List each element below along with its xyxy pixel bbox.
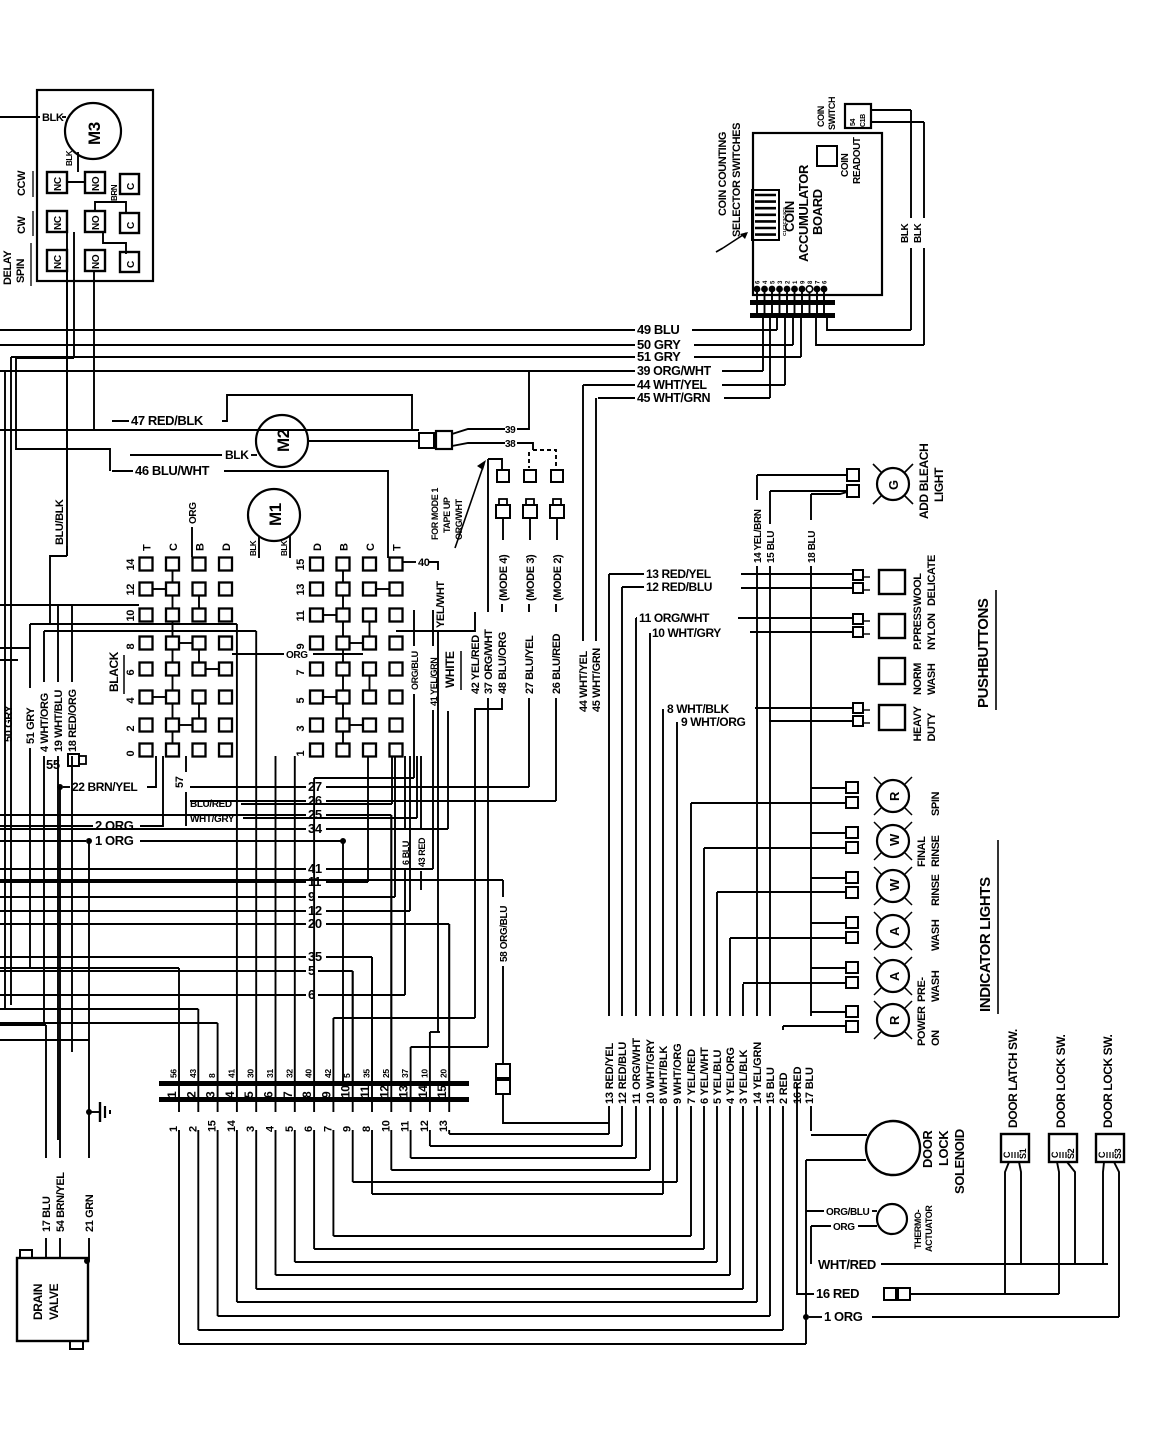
black contact c1r3 [140,609,153,622]
svg-text:18 RED/ORG: 18 RED/ORG [67,689,79,752]
svg-text:6: 6 [262,1091,276,1098]
wire 1 ORG left [0,840,86,842]
svg-text:T: T [142,544,154,551]
lamp G terminals [847,469,859,481]
wire 47 RED/BLK [112,420,129,422]
black contact c2r1 [166,558,179,571]
black contact c3r7 [193,719,206,732]
svg-text:9 WHT/ORG: 9 WHT/ORG [672,1043,684,1104]
svg-text:10: 10 [339,1085,353,1098]
contact NC row3 [47,250,67,271]
svg-text:44 WHT/YEL: 44 WHT/YEL [578,651,590,712]
white contact c2r4 [337,637,350,650]
svg-text:S1: S1 [1018,1148,1028,1159]
wire 18/17 vertical [810,494,812,520]
white contact c2r2 [337,583,350,596]
svg-text:B: B [195,543,207,551]
black contact c4r1 [219,558,232,571]
black contact c3r2 [193,583,206,596]
white contact c2r8 [337,744,350,757]
svg-text:0: 0 [125,751,137,757]
left vertical b [4,371,6,1010]
svg-text:SWITCH: SWITCH [827,97,837,130]
white contact c3r5 [363,663,376,676]
svg-text:26 BLU/RED: 26 BLU/RED [551,633,563,694]
svg-text:D: D [221,543,233,551]
svg-text:NO: NO [91,254,102,269]
white contact c4r2 [390,583,403,596]
white contact c2r3 [337,609,350,622]
wire 8 vertical [662,709,664,1016]
wire 15 vertical [769,491,771,524]
svg-text:SPIN: SPIN [930,791,942,816]
black contact c1r7 [140,719,153,732]
svg-text:46 BLU/WHT: 46 BLU/WHT [135,463,209,478]
arrow mode1 [455,464,484,548]
svg-text:NO: NO [91,215,102,230]
thermo actuator [877,1204,907,1234]
wire 1 ORG drop [342,841,344,1081]
svg-text:G: G [886,480,901,490]
svg-text:8 WHT/BLK: 8 WHT/BLK [667,702,729,716]
wire 2 to lamp R power on [783,1025,846,1027]
black contact c2r6 [166,691,179,704]
contact C row2 [120,213,139,233]
svg-text:ACTUATOR: ACTUATOR [924,1205,934,1252]
wire timer drop 3 [93,271,95,430]
contact NC row1 [47,172,67,193]
svg-text:55: 55 [46,757,60,772]
svg-text:27 BLU/YEL: 27 BLU/YEL [524,635,536,694]
svg-text:(MODE 2): (MODE 2) [552,554,564,601]
wire 6 vertical [703,848,705,1016]
wire 10 vertical [649,633,651,1016]
svg-text:DELAY: DELAY [2,250,14,285]
svg-text:2: 2 [125,726,137,732]
white contact c4r7 [390,719,403,732]
wire 5 vertical [716,892,718,1016]
wire 18 BLU to G [811,492,847,494]
svg-text:S2: S2 [1066,1148,1076,1159]
svg-text:15: 15 [435,1085,449,1098]
svg-text:3: 3 [204,1091,218,1098]
svg-text:SOLENOID: SOLENOID [952,1129,967,1194]
white contact c1r5 [310,663,323,676]
svg-text:READOUT: READOUT [852,137,863,184]
wire label 41 [0,868,306,870]
svg-text:NC: NC [53,177,64,191]
svg-text:10 WHT/GRY: 10 WHT/GRY [652,626,721,640]
strip top drops [178,968,180,1081]
coin bar right wire 2 [816,318,924,345]
svg-text:54: 54 [850,119,857,126]
wire BLK M2 left [130,454,222,456]
motor M3 [65,103,121,159]
fan wire 3 [255,1102,257,1112]
wire 58 ORG/BLU [0,879,503,881]
wire solenoid bottom [806,1159,866,1161]
motor M1 [248,489,300,541]
svg-text:BLU/BLK: BLU/BLK [54,499,66,545]
svg-text:YEL/WHT: YEL/WHT [435,581,447,628]
wire BLK to M3 [0,116,40,118]
wire 2 ORG [0,825,93,827]
svg-text:WASH: WASH [930,919,942,951]
white contact c4r1 [390,558,403,571]
svg-text:DRAIN: DRAIN [31,1284,45,1320]
white contact c4r4 [390,637,403,650]
svg-text:VALVE: VALVE [47,1283,61,1320]
svg-text:FOR MODE 1: FOR MODE 1 [430,488,440,540]
black contact c2r4 [166,637,179,650]
svg-text:32: 32 [284,1069,294,1078]
svg-text:NYLON: NYLON [926,613,938,650]
svg-text:2: 2 [184,1091,198,1098]
svg-text:30: 30 [246,1069,256,1078]
white contact c2r1 [337,558,350,571]
fan wire 13 [448,1102,450,1112]
white contact c2r7 [337,719,350,732]
wire 22 BRN/YEL [57,784,63,790]
pushbutton NORM WASH [879,658,905,684]
svg-text:DOOR LATCH SW.: DOOR LATCH SW. [1006,1029,1020,1128]
wire 6 to lamp W [704,847,846,849]
black contact c2r7 [166,719,179,732]
svg-text:12: 12 [377,1085,391,1098]
svg-text:22 BRN/YEL: 22 BRN/YEL [72,780,137,794]
wire M1 right stub BLK [289,536,291,558]
white contact c3r4 [363,637,376,650]
terminal strip bar 2 [159,1097,469,1102]
svg-text:DOOR: DOOR [920,1130,935,1168]
wire 2 top corner [782,1026,784,1030]
svg-text:DUTY: DUTY [926,712,938,741]
svg-text:16 RED: 16 RED [816,1286,859,1301]
svg-text:3: 3 [295,726,307,732]
svg-text:5: 5 [342,1073,352,1078]
contact C row3 [120,252,139,272]
black contact c1r8 [140,744,153,757]
white contact c4r8 [390,744,403,757]
svg-text:41: 41 [226,1069,236,1078]
indicator lamp A PRE- WASH [877,960,909,992]
svg-text:ORG: ORG [833,1222,855,1233]
svg-text:4: 4 [223,1091,237,1098]
svg-text:M2: M2 [274,429,293,452]
wire label 9 [0,896,306,898]
svg-text:C: C [1002,1151,1012,1158]
svg-text:2 ORG: 2 ORG [95,818,134,833]
pushbutton terminals 1 [853,570,863,580]
svg-text:16 RED: 16 RED [792,1066,804,1104]
wire 13 to pushbutton [609,573,644,575]
drain valve [17,1258,88,1341]
svg-text:10: 10 [125,610,137,622]
svg-text:54 BRN/YEL: 54 BRN/YEL [55,1172,67,1232]
svg-text:11: 11 [358,1085,372,1098]
wire 11 vertical [635,618,637,1016]
svg-text:11 ORG/WHT: 11 ORG/WHT [631,1038,643,1104]
svg-text:21 GRN: 21 GRN [84,1194,96,1232]
svg-text:37 ORG/WHT: 37 ORG/WHT [483,629,495,694]
mode 3 plug [526,499,534,505]
svg-text:4 YEL/ORG: 4 YEL/ORG [725,1047,737,1104]
svg-text:19 WHT/BLU: 19 WHT/BLU [53,690,65,752]
wire NO-C link spin [103,232,126,254]
wire 6 BLU [404,756,406,830]
svg-text:M1: M1 [266,503,285,526]
svg-text:ORG/BLU: ORG/BLU [826,1207,869,1218]
coin counting selector switches block [752,190,779,240]
svg-text:57: 57 [174,776,186,788]
svg-text:BLK: BLK [65,150,74,166]
wire 39 left [0,370,635,372]
wire 46 BLU/WHT [112,470,133,472]
svg-text:34: 34 [308,821,323,836]
black contact c4r7 [219,719,232,732]
wire 49 left [0,329,635,331]
mode plug tops [497,470,509,482]
black contact c4r2 [219,583,232,596]
svg-text:BLK: BLK [42,112,64,124]
black contact c3r4 [193,637,206,650]
wire timer chain [16,358,110,471]
svg-text:SPIN: SPIN [15,258,27,283]
door switch S3 [1096,1134,1124,1162]
svg-text:W: W [887,878,902,891]
door switch S1 [1001,1134,1029,1162]
black contact c3r3 [193,609,206,622]
svg-text:11: 11 [295,610,307,621]
black contact c1r5 [140,663,153,676]
svg-text:C: C [1097,1151,1107,1158]
svg-text:SELECTOR SWITCHES: SELECTOR SWITCHES [731,123,743,237]
white contact c3r2 [363,583,376,596]
svg-text:PUSHBUTTONS: PUSHBUTTONS [975,598,992,708]
black contact c4r8 [219,744,232,757]
svg-text:6 BLU: 6 BLU [401,841,411,865]
svg-text:D: D [312,543,324,551]
svg-text:5 YEL/BLU: 5 YEL/BLU [712,1050,724,1104]
inline connector M2 [419,433,434,448]
switch S2 legs [1057,1162,1059,1294]
wire 4 vertical [729,938,731,1016]
svg-text:W: W [887,833,902,846]
black contact c1r1 [140,558,153,571]
wire 7 to lamp R [691,802,846,804]
wire label 25 [0,814,306,816]
svg-text:42: 42 [323,1069,333,1078]
fan wire 4 [275,1102,277,1112]
svg-text:C: C [126,183,137,190]
left bottom horizontals [0,967,179,969]
black contact c1r4 [140,637,153,650]
svg-text:ORG/BLU: ORG/BLU [410,651,420,690]
svg-text:40: 40 [418,557,430,569]
svg-text:WASH: WASH [926,663,938,695]
white contact c4r5 [390,663,403,676]
svg-text:ORG/WHT: ORG/WHT [454,498,464,540]
svg-text:BLK: BLK [225,448,249,462]
svg-text:ORG: ORG [188,502,199,524]
wire NO-C link with BRN [95,202,126,213]
svg-text:15 BLU: 15 BLU [765,1067,777,1104]
wire 17 BLU [0,1024,46,1026]
svg-text:38: 38 [505,439,516,450]
fan wire 11 [410,1102,412,1112]
svg-text:COIN: COIN [782,201,797,232]
white contact c3r3 [363,609,376,622]
svg-text:13 RED/YEL: 13 RED/YEL [646,567,711,581]
svg-text:BLACK: BLACK [107,651,121,692]
svg-text:8: 8 [207,1073,217,1078]
wire ORG [811,1225,831,1227]
svg-text:25: 25 [381,1069,391,1078]
svg-text:RINSE: RINSE [930,835,942,867]
fan wire 7 [332,1102,334,1112]
wire label 5 [0,970,306,972]
svg-text:35: 35 [362,1069,372,1078]
svg-text:TAPE UP: TAPE UP [442,497,452,533]
wire 5 to lamp W [717,891,846,893]
reversing timer motor box [37,90,153,281]
black contact c4r3 [219,609,232,622]
fan wire 5 [294,1102,296,1112]
svg-text:6: 6 [125,670,137,676]
coin switch box [845,104,871,128]
door lock solenoid [866,1121,920,1175]
wire BLK coin switch 2 [871,121,924,123]
white contact c4r3 [390,609,403,622]
white contact c3r1 [363,558,376,571]
coin bus bar 1 [750,300,835,305]
white grid links [342,571,344,583]
fan wire 15 [217,1102,219,1112]
svg-text:2 RED: 2 RED [778,1072,790,1104]
svg-text:WOOL: WOOL [912,573,924,606]
svg-text:5: 5 [295,698,307,704]
svg-text:WASH: WASH [930,970,942,1002]
svg-text:49 BLU: 49 BLU [637,322,679,337]
svg-text:C: C [126,222,137,229]
svg-text:13: 13 [295,584,307,596]
svg-text:BOARD: BOARD [810,189,825,235]
svg-text:RINSE: RINSE [930,874,942,906]
svg-text:R: R [887,1015,902,1025]
svg-text:A: A [887,971,902,981]
coin bar drops [762,318,764,371]
svg-text:C: C [126,261,137,268]
svg-text:M3: M3 [85,122,104,145]
svg-text:C: C [168,543,180,551]
svg-text:15: 15 [295,559,307,571]
door switch S2 [1049,1134,1077,1162]
black contact c4r5 [219,663,232,676]
wire M3 to contacts [77,152,79,172]
wire label 35 [0,956,306,958]
svg-text:13 RED/YEL: 13 RED/YEL [604,1043,616,1104]
svg-text:LOCK: LOCK [936,1130,951,1166]
svg-text:1 ORG: 1 ORG [824,1309,863,1324]
svg-text:39 ORG/WHT: 39 ORG/WHT [637,364,712,378]
fan wire 1 [178,1102,180,1112]
svg-text:C: C [1050,1151,1060,1158]
pushbutton P.PRESS NYLON [879,614,905,638]
wire 50 left [0,344,635,346]
svg-text:R: R [887,791,902,801]
svg-text:8: 8 [300,1091,314,1098]
svg-text:ORG: ORG [286,650,308,661]
svg-text:7: 7 [295,670,307,676]
wire 3 to lamp A [743,982,846,984]
wire 12 vertical [621,587,623,1016]
svg-text:COIN: COIN [840,153,851,177]
wire M2 right to connector [308,440,419,442]
svg-text:T: T [392,544,404,551]
svg-text:NO: NO [91,176,102,191]
svg-text:NC: NC [53,255,64,269]
black contact c2r8 [166,744,179,757]
svg-text:S3: S3 [1113,1148,1123,1159]
white contact c1r2 [310,583,323,596]
ground [86,1109,92,1115]
wire label 26 [190,800,306,802]
svg-text:10 WHT/GRY: 10 WHT/GRY [645,1038,657,1104]
black grid hlinks [153,588,167,590]
wire ORG mid [232,653,284,655]
svg-text:BLK: BLK [900,222,911,243]
coin readout square [817,146,837,166]
svg-text:40: 40 [304,1069,314,1078]
switch S1 legs [1005,1162,1009,1294]
svg-text:BLK: BLK [249,540,258,556]
svg-text:41 YEL/GRN: 41 YEL/GRN [429,658,439,706]
svg-text:14 YEL/BRN: 14 YEL/BRN [753,509,764,563]
svg-text:1: 1 [165,1091,179,1098]
svg-text:20: 20 [439,1069,449,1078]
wire M1 left stub BLK [258,536,260,558]
svg-text:43 RED: 43 RED [417,837,427,867]
indicator lamp W FINAL RINSE [877,825,909,857]
fan wire 2 [197,1102,199,1112]
svg-text:ADD BLEACH: ADD BLEACH [917,444,931,519]
svg-text:COIN COUNTING: COIN COUNTING [717,132,729,216]
svg-text:13: 13 [397,1085,411,1098]
svg-text:48 BLU/ORG: 48 BLU/ORG [497,632,509,694]
wire 17 drop [810,1106,812,1131]
svg-text:7: 7 [281,1091,295,1098]
contact NO row2 [85,211,105,232]
wire 45 vertical [595,398,597,641]
wire 51 left [11,356,635,358]
svg-text:45 WHT/GRN: 45 WHT/GRN [637,391,710,405]
white contact c2r6 [337,691,350,704]
svg-text:THERMO-: THERMO- [913,1209,923,1249]
fan wire 9 [352,1102,354,1112]
indicator lamp W RINSE [877,870,909,902]
svg-text:LIGHT: LIGHT [932,467,946,502]
svg-text:DELICATE: DELICATE [926,555,938,606]
white contact c3r6 [363,691,376,704]
svg-text:43: 43 [188,1069,198,1078]
black grid links [172,571,174,583]
black contact c4r6 [219,691,232,704]
black contact c2r3 [166,609,179,622]
svg-text:9: 9 [319,1091,333,1098]
svg-text:9: 9 [295,644,307,650]
svg-text:39: 39 [505,425,516,436]
wire 38 to modes [517,443,533,450]
